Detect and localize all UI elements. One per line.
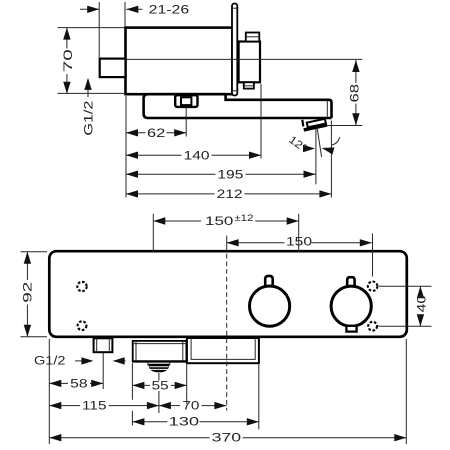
in-wall top connector inner line — [246, 36, 259, 38]
in-wall bottom connector inner line — [244, 85, 254, 87]
shelf inner edge near right end — [326, 101, 328, 117]
svg-text:40: 40 — [416, 295, 428, 313]
dim 62 — [126, 132, 146, 134]
left knob (temperature) — [250, 286, 290, 326]
right knob tab — [347, 277, 354, 289]
aerator flange left — [147, 363, 149, 366]
left mounting hole top (dashed) — [77, 282, 86, 291]
dim 115 — [49, 405, 80, 407]
aerator dome — [148, 365, 169, 373]
aerator center ext line — [158, 373, 160, 381]
G1/2 bottom leader left arrow — [75, 360, 84, 362]
ext line spout right edge — [330, 121, 332, 198]
dim 130 — [132, 421, 167, 423]
svg-text:212: 212 — [217, 189, 243, 201]
svg-text:55: 55 — [152, 381, 169, 393]
dim 70 (bottom) — [159, 405, 180, 407]
svg-text:21-26: 21-26 — [149, 5, 190, 17]
ext line body front (down) — [125, 96, 127, 198]
ext line body top left — [58, 27, 126, 29]
ext line 150 right (to hole column) — [372, 234, 374, 277]
ext line holes top right — [378, 285, 431, 287]
right knob (volume) — [331, 286, 371, 326]
svg-text:92: 92 — [23, 282, 35, 303]
ext line for 140 (in-wall box) — [260, 84, 262, 159]
dim 70 vertical line — [66, 28, 68, 49]
12deg reference vertical line — [315, 129, 317, 185]
svg-text:G1/2: G1/2 — [84, 101, 96, 136]
select button inner — [181, 97, 191, 105]
ext line body bottom left — [58, 92, 126, 94]
ext line body right (down) — [405, 339, 407, 444]
dim 21-26 line left part — [80, 8, 99, 10]
dim 40 vertical — [419, 286, 421, 295]
svg-text:58: 58 — [70, 379, 87, 391]
svg-text:68: 68 — [350, 84, 362, 103]
12deg right arrow with curved leader — [321, 144, 334, 154]
G1/2 bottom nipple — [94, 338, 113, 352]
in-wall supply body — [239, 42, 260, 83]
ext line body top left — [21, 251, 48, 253]
plate end tick top — [232, 7, 237, 9]
in-wall bottom connector box — [244, 82, 254, 88]
in-wall top connector box — [246, 33, 259, 42]
svg-text:115: 115 — [82, 401, 107, 413]
handle box inner — [191, 338, 255, 359]
svg-text:370: 370 — [212, 433, 242, 445]
left knob tab — [265, 276, 273, 289]
ext line body front top — [124, 2, 126, 27]
right mounting hole bottom (dashed) — [368, 322, 377, 331]
pipe axis thin line through body to 68-dim — [126, 58, 363, 60]
nipple center ext line — [102, 353, 104, 389]
spout nozzle left edge — [302, 120, 303, 127]
svg-text:70: 70 — [63, 49, 75, 72]
nipple inner wall right — [108, 338, 110, 352]
dim 150 — [227, 242, 285, 244]
spout box (front) outer — [133, 341, 187, 362]
svg-text:70: 70 — [182, 401, 199, 413]
dim 58 — [49, 382, 68, 384]
dim 55 — [132, 384, 149, 386]
ext line 150+-12 right — [298, 214, 300, 253]
svg-text:130: 130 — [169, 417, 200, 429]
front body panel — [49, 251, 407, 337]
ext line spout box right (down) — [186, 363, 188, 404]
G1/2 top leader arrow — [87, 79, 89, 97]
dim 195 — [126, 173, 216, 175]
aerator flange right — [169, 363, 171, 366]
shelf / spout bar (side view outline) — [144, 94, 332, 118]
mixer body (side view) — [126, 28, 233, 95]
dim 212 — [126, 193, 215, 195]
select button on shelf (side view) — [175, 95, 197, 107]
ext line button center — [185, 108, 187, 137]
ext line 150+-12 left — [152, 214, 154, 253]
spout box bottom edge thick — [133, 360, 187, 362]
svg-text:140: 140 — [184, 150, 210, 162]
dim 21-26 line right part — [126, 8, 142, 10]
dim 370 — [49, 437, 209, 439]
right knob bottom button — [346, 326, 356, 332]
ext line nipple tip — [98, 2, 100, 58]
ext line body left (down) — [48, 339, 50, 444]
ext line handle box right (down) — [258, 365, 260, 430]
svg-text:150: 150 — [205, 216, 233, 228]
dim 140 — [126, 154, 182, 156]
ext line body bottom left — [21, 336, 48, 338]
spout nozzle (tilted outlet) — [302, 119, 327, 132]
ext line spout box left (down) — [131, 363, 133, 400]
svg-text:195: 195 — [217, 169, 243, 181]
svg-text:±12: ±12 — [234, 213, 253, 223]
nipple inner wall left — [96, 338, 98, 352]
G1/2 inlet nipple (side view) — [100, 59, 126, 78]
svg-text:150: 150 — [286, 237, 312, 249]
G1/2 bottom leader right arrow — [118, 360, 126, 362]
dim 92 vertical — [26, 252, 28, 280]
dim 150+-12 — [153, 220, 201, 222]
left mounting hole bottom (dashed) — [78, 321, 87, 330]
ext line spout outlet bottom — [328, 125, 363, 127]
spout box inner — [133, 341, 187, 362]
wall escutcheon plate (edge-on) — [232, 4, 237, 96]
center dash-dot line — [226, 236, 228, 247]
12deg left arrow — [303, 145, 315, 152]
handle box (front) outer — [187, 338, 259, 363]
right mounting hole top (dashed) — [368, 282, 377, 291]
ext line holes bottom right — [378, 325, 431, 327]
12deg tilted line — [317, 127, 322, 158]
svg-text:62: 62 — [147, 128, 165, 140]
dim 68 vertical — [355, 60, 357, 83]
plate end tick bottom — [232, 90, 237, 92]
